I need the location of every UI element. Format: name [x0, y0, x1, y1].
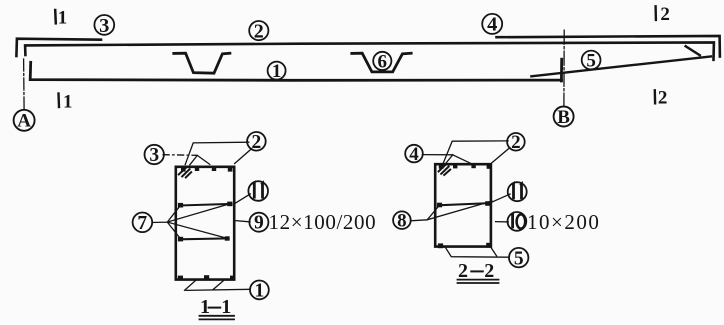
svg-text:3: 3 — [99, 15, 109, 37]
leader 10 — [496, 221, 509, 223]
leader 2 left leg — [185, 142, 249, 164]
section 2-2 bottom rebar dots — [438, 243, 492, 248]
dash of title 2-2 — [470, 270, 484, 272]
bar 2 (full-length top bar, hooks both ends) — [25, 42, 714, 59]
svg-text:6: 6 — [378, 51, 388, 72]
svg-text:9: 9 — [254, 213, 264, 234]
hanger bar 6 (trapezoid) right — [352, 53, 411, 72]
section 2-2 bar-4 hook hatch — [439, 164, 451, 175]
section 2-2 outline — [435, 164, 491, 246]
bar 5 (bent bar along tapered soffit) — [531, 56, 711, 76]
svg-text:4: 4 — [487, 14, 497, 36]
callout circle 6 — [373, 52, 391, 70]
svg-text:3: 3 — [149, 145, 159, 166]
gridline B (dash-dot) — [563, 30, 565, 106]
callout circle 1 — [268, 62, 286, 80]
leader 3 fork — [190, 155, 210, 164]
section 1-1 top rebar dots — [181, 167, 232, 171]
digits 11 in circle (section 2-2) drawn — [512, 184, 521, 199]
svg-text:A: A — [17, 111, 31, 132]
leader 4 fork — [446, 155, 471, 164]
svg-text:2: 2 — [660, 4, 670, 25]
svg-text:1: 1 — [272, 61, 282, 82]
bar 1 right hook — [560, 59, 563, 81]
svg-text:1: 1 — [63, 91, 73, 112]
hanger bar (trapezoid) left — [174, 53, 230, 73]
callout circle 3 — [94, 15, 114, 35]
svg-text:8: 8 — [397, 211, 407, 232]
grid bubble B — [554, 107, 574, 127]
svg-text:5: 5 — [514, 248, 524, 269]
svg-text:1: 1 — [58, 8, 68, 29]
svg-text:2: 2 — [252, 132, 262, 153]
svg-text:2: 2 — [511, 132, 521, 153]
leader 2 right leg — [492, 148, 510, 163]
svg-text:5: 5 — [586, 51, 596, 72]
svg-text:2: 2 — [658, 87, 668, 108]
svg-text:B: B — [557, 107, 570, 128]
digits 11 in circle (section 1-1) drawn — [253, 184, 262, 199]
bar 4 (short top bar at right support, hook at right end) — [497, 36, 720, 57]
gridline A (dash-dot) — [23, 59, 26, 109]
svg-text:7: 7 — [137, 213, 147, 234]
bar 5 end hook — [686, 46, 700, 55]
bar 3 (short top bar at left support, with end hook) — [16, 39, 101, 56]
svg-text:2: 2 — [254, 20, 264, 42]
leader 2 left leg — [443, 141, 508, 163]
callout circle 10 — [508, 212, 527, 231]
section 1-1 bar-3 hook hatch — [179, 167, 191, 178]
svg-text:2: 2 — [458, 260, 468, 282]
label 2-2 underline — [458, 280, 499, 283]
callout circle 2 (section 1-1) — [247, 132, 266, 151]
svg-text:10×200: 10×200 — [527, 210, 600, 234]
callout circle 5 (section 2-2) — [509, 248, 528, 267]
svg-text:4: 4 — [409, 144, 419, 165]
callout circle 2 (section 2-2) — [507, 133, 525, 151]
section 2-2 top rebar dots — [439, 164, 491, 168]
callout circle 3 (section 1-1) — [145, 145, 164, 164]
label 1-1 underline — [200, 316, 235, 320]
callout circle 4 (section 2-2) — [405, 145, 423, 163]
callout circle 11 (section 1-1) — [248, 181, 268, 201]
callout circle 1 (section 1-1) — [250, 281, 269, 300]
leader 3 dashed — [163, 154, 197, 157]
section 1-1 outline — [176, 167, 234, 280]
leader 9 — [236, 221, 250, 222]
leader 5 — [446, 248, 508, 258]
leader 2 right leg — [235, 149, 252, 164]
leader 11 — [233, 194, 250, 204]
callout circle 7 — [133, 213, 153, 233]
callout circle 9 — [249, 213, 268, 232]
leader 8 fan — [411, 201, 492, 221]
leader 11 — [489, 194, 510, 203]
bar 1 (bottom bar with up hooks at both ends) — [30, 62, 561, 80]
section 1-1 upper tie — [180, 204, 231, 206]
grid bubble A — [14, 110, 35, 131]
leader 7 fan — [152, 204, 229, 239]
section title 1-1 — [200, 260, 494, 318]
callout circle 11 (section 2-2) — [508, 182, 527, 201]
callout circle 5 — [582, 51, 601, 70]
section cut mark 2 top — [654, 6, 657, 20]
svg-text:12×100/200: 12×100/200 — [269, 210, 377, 234]
svg-text:2: 2 — [484, 260, 494, 282]
section 2-2 tie — [438, 203, 489, 205]
leader 4 — [423, 154, 453, 156]
section 1-1 bottom rebar dots — [178, 275, 235, 280]
dash of title 1-1 — [208, 307, 222, 309]
callout circle 2 — [249, 21, 268, 40]
svg-text:1: 1 — [221, 296, 231, 318]
section 1-1 lower tie — [180, 237, 229, 240]
digits 10 in circle drawn — [511, 214, 525, 228]
svg-text:1: 1 — [255, 280, 265, 301]
section cut mark 2 bottom — [654, 90, 657, 103]
section cut mark 1 bottom — [57, 94, 60, 108]
section cut mark 1 top — [54, 10, 57, 23]
leader 1 — [185, 280, 250, 290]
callout circle 8 — [393, 211, 411, 229]
callout circle 4 — [482, 14, 502, 34]
